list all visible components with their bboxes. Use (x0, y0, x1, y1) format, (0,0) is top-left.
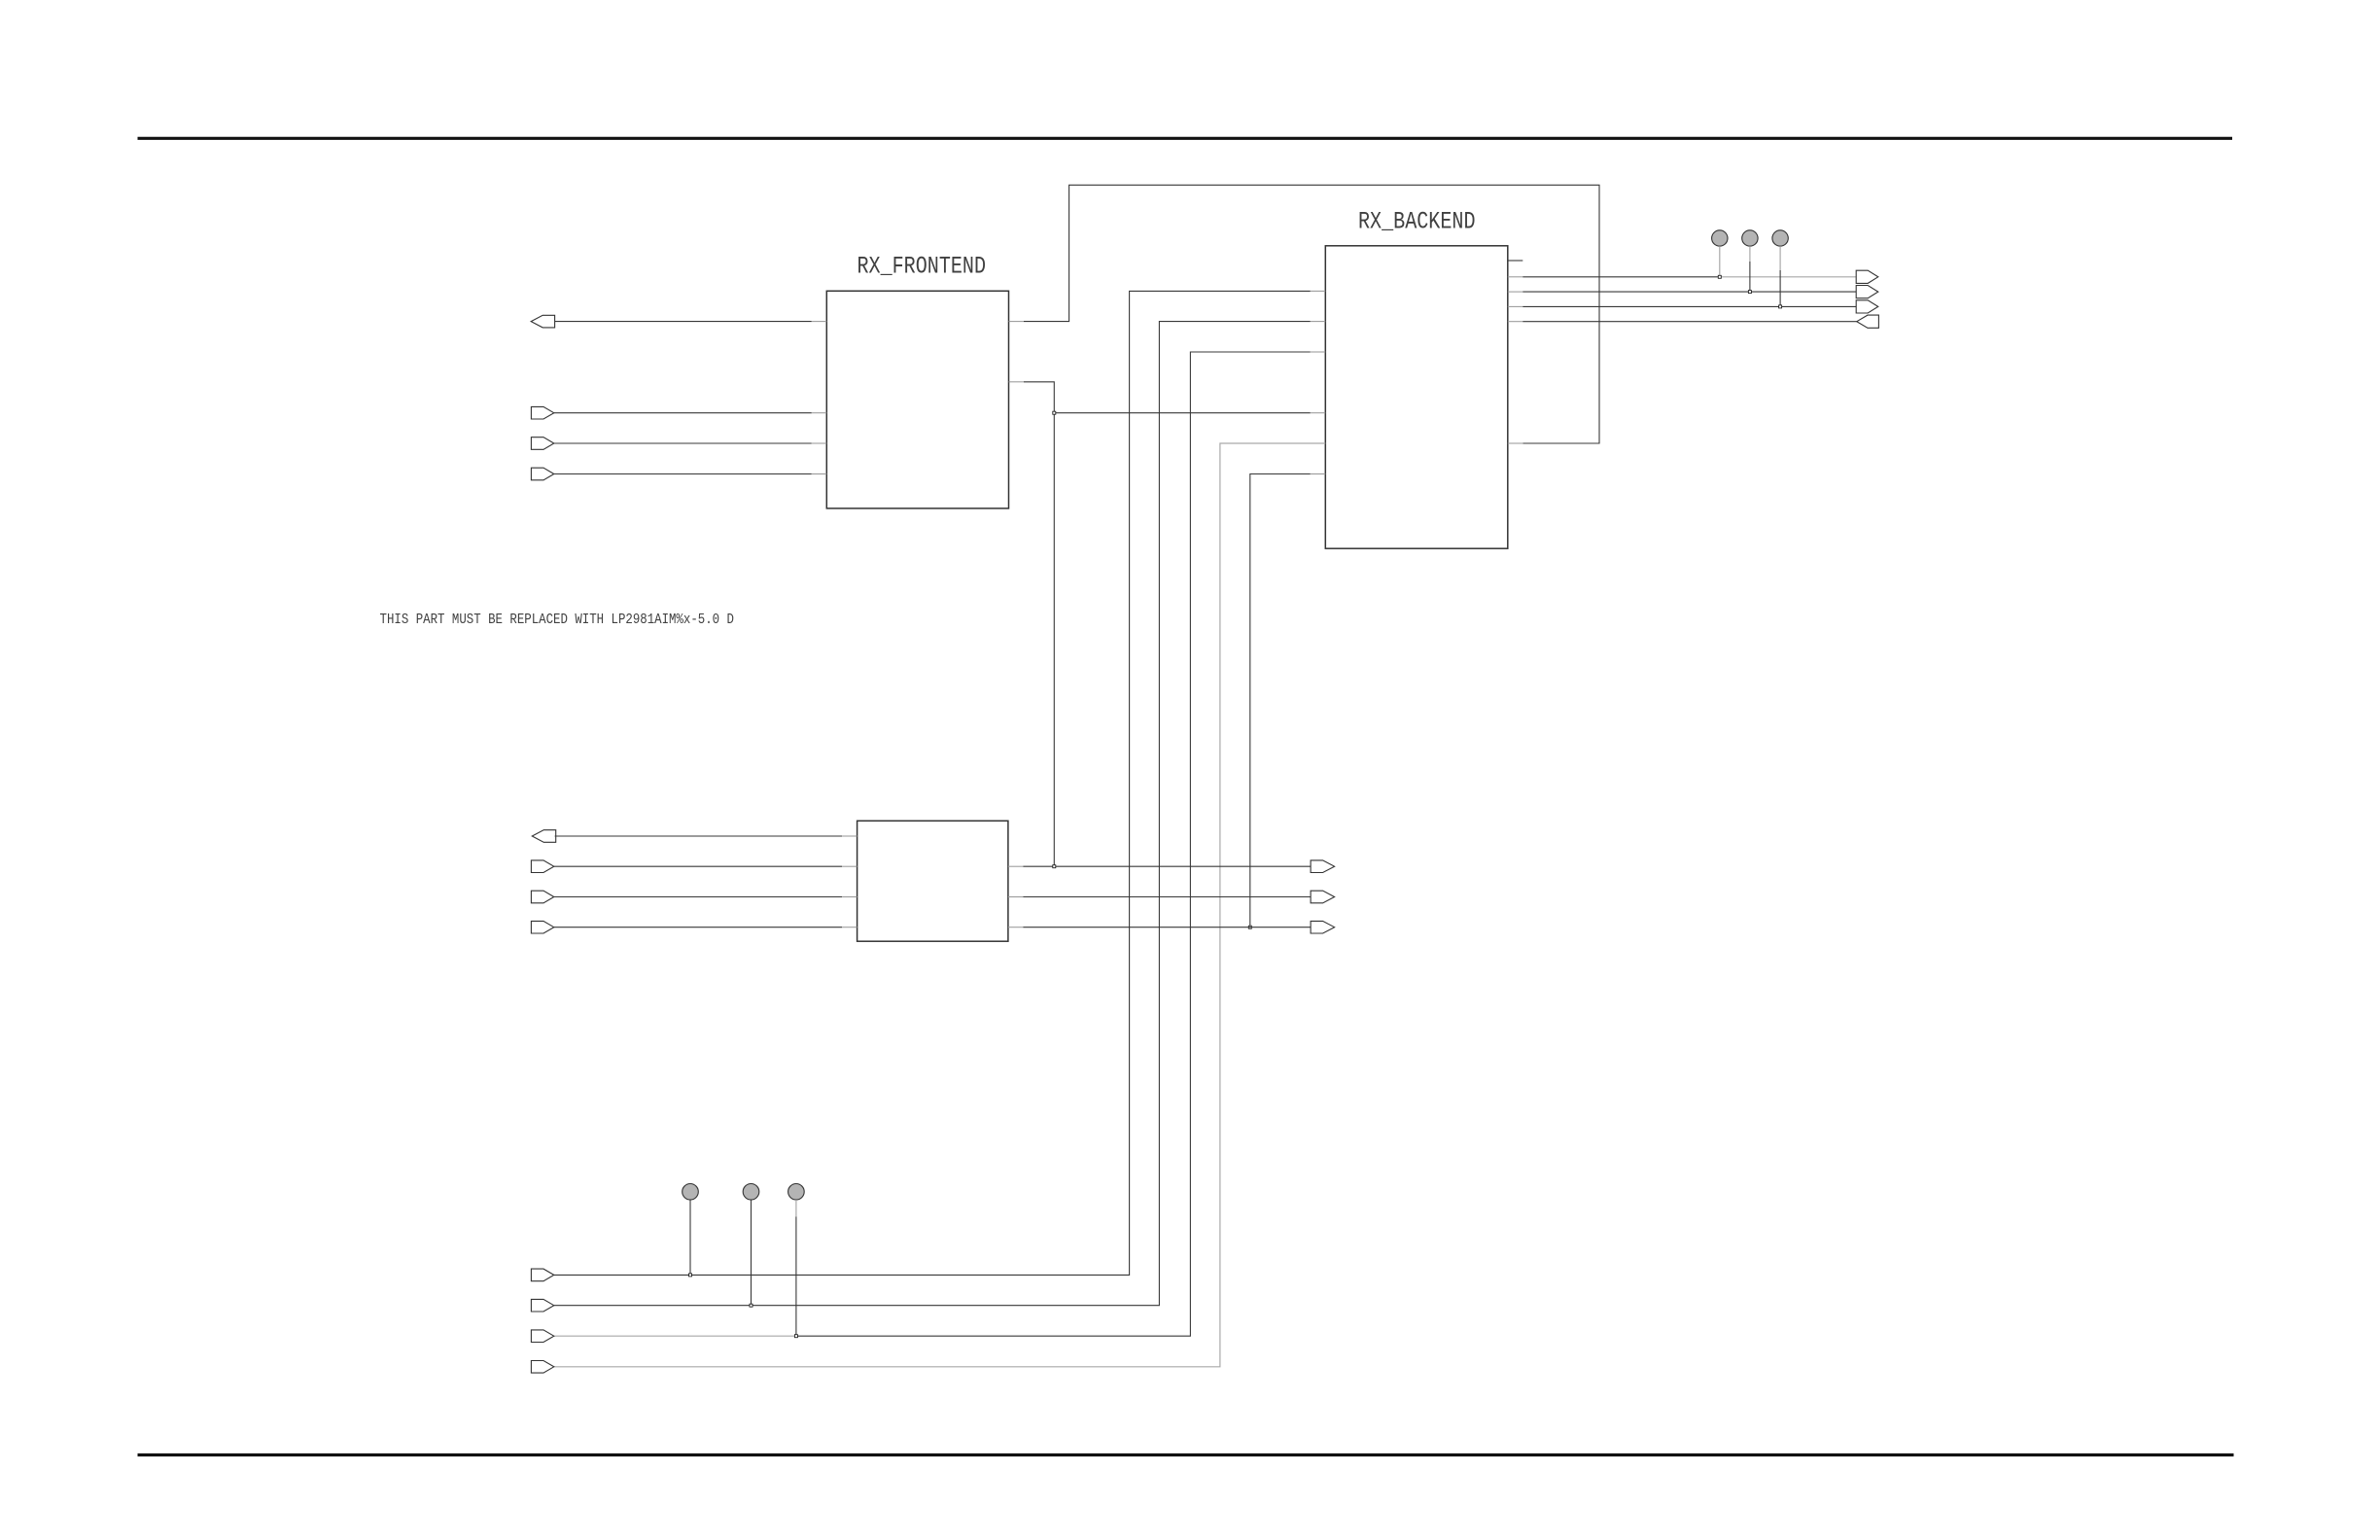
block RX_BACKEND U2 (1325, 246, 1508, 548)
port arrow bottom in 2 (531, 1299, 553, 1312)
wire backend right t1 gray part (1720, 276, 1856, 278)
wire frontend in 2 (554, 442, 812, 444)
pin stub middle out (842, 835, 857, 837)
pin stub backend pin BL4 (1311, 412, 1326, 414)
svg-text:RX_BACKEND: RX_BACKEND (1358, 208, 1476, 236)
wire net B vertical (1024, 382, 1054, 866)
pin stub middle right 3 (1008, 927, 1024, 928)
port arrow frontend in 2 (531, 437, 553, 450)
testpoint circle top 2 (1742, 230, 1758, 246)
pin stub middle in 2 (842, 896, 857, 898)
pin stub frontend in 2 (812, 442, 827, 444)
wire middle out (555, 835, 843, 837)
stem bottom 1 (689, 1200, 691, 1275)
pin stub backend pin BL1 (1311, 290, 1326, 292)
port arrow mid-right 3 (1311, 921, 1335, 933)
testpoint circle bottom 1 (682, 1184, 699, 1201)
wire middle right 1 (1023, 865, 1311, 867)
pin stub frontend pin FO2 (1009, 381, 1025, 383)
stem top 2 gray part (1749, 246, 1751, 262)
block RX_FRONTEND U1 (826, 291, 1008, 508)
port arrow out top-right 3 (1856, 300, 1878, 313)
stem top 1 (gray) (1719, 246, 1721, 277)
bottom border line (138, 1453, 2234, 1456)
junction top 3 (1779, 305, 1782, 308)
wire net RX1 backend BL2 to bottom port 2 (554, 322, 1311, 1306)
junction top 1 (1718, 275, 1721, 278)
junction bottom 1 (689, 1274, 692, 1277)
port arrow bottom in 1 (531, 1269, 553, 1281)
wire backend right t2 (1522, 291, 1856, 293)
testpoint circle top 3 (1772, 230, 1788, 246)
pin stub backend right t2 (1508, 291, 1523, 293)
wire net LOOP frontend to backend right pin (1024, 185, 1599, 443)
junction net RX4 at row m4 (1248, 926, 1251, 928)
pin stub middle in 3 (842, 927, 857, 928)
port arrow out top-right 2 (1856, 286, 1878, 298)
wire frontend in 3 (554, 473, 812, 475)
testpoint circle top 1 (1712, 230, 1728, 246)
testpoint circle bottom 3 (788, 1184, 805, 1201)
port arrow middle in 1 (531, 860, 553, 873)
wire net RX2 backend BL3 to bottom port 3 (black part) (796, 352, 1311, 1336)
wire frontend in 1 (554, 412, 812, 414)
block U3 regulator (unlabeled) (857, 821, 1008, 941)
wire middle right 2 (1023, 896, 1311, 898)
pin stub frontend in 1 (812, 412, 827, 414)
pin stub frontend out (812, 321, 827, 323)
wire frontend out (555, 321, 812, 323)
port arrow middle in 2 (531, 891, 553, 903)
port arrow middle in 3 (531, 921, 553, 933)
pin stub middle right 1 (1008, 865, 1024, 867)
wire net RX3 backend BL5 to bottom port 4 (gray net) (554, 443, 1326, 1367)
stem top 2 black part (1749, 262, 1751, 292)
port arrow frontend in 3 (531, 468, 553, 480)
pin stub backend right t4 (1508, 321, 1523, 323)
port arrow out top-right 1 (1856, 270, 1878, 283)
wire backend right t1 black part (1522, 276, 1720, 278)
junction net B at row m2 (1053, 865, 1056, 868)
wire net RX2 gray part (554, 1335, 796, 1337)
pin stub backend pin BL6 (1311, 473, 1326, 475)
wire net RX0 backend BL1 to bottom port 1 (554, 291, 1311, 1275)
port arrow mid-right 1 (1311, 860, 1335, 873)
stem bottom 3 black part (795, 1217, 797, 1337)
port arrow middle out (left-pointing) (532, 830, 555, 843)
wire middle right 3 (1023, 927, 1311, 928)
pin stub frontend in 3 (812, 473, 827, 475)
stem bottom 3 gray part (795, 1200, 797, 1216)
top border line (138, 137, 2233, 140)
port arrow frontend out (left-pointing) (531, 315, 554, 328)
pin stub backend right t1 (1508, 276, 1523, 278)
port arrow bottom in 3 (531, 1330, 553, 1343)
wire net RX4 backend BL6 to middle block out 3 (1250, 474, 1311, 927)
stem top 3 black part (1779, 270, 1781, 306)
port arrow mid-right 2 (1311, 891, 1335, 903)
wire middle in 3 (554, 927, 842, 928)
testpoint circle bottom 2 (743, 1184, 759, 1201)
junction top 2 (1748, 291, 1751, 294)
svg-text:THIS PART MUST BE REPLACED WIT: THIS PART MUST BE REPLACED WITH LP2981AI… (380, 612, 735, 628)
junction bottom 2 (750, 1304, 752, 1307)
stem top 3 gray part (1779, 246, 1781, 270)
port arrow in top-right 4 (left-pointing) (1857, 315, 1879, 328)
port arrow frontend in 1 (531, 406, 553, 419)
wire net B branch to backend pin BL4 (1054, 412, 1311, 414)
wire backend right t4 (1522, 321, 1857, 323)
wire backend right t3 (1522, 305, 1856, 307)
svg-text:RX_FRONTEND: RX_FRONTEND (857, 253, 987, 281)
junction bottom 3 (794, 1335, 797, 1338)
port arrow bottom in 4 (531, 1361, 553, 1374)
pin stub backend pin BL3 (1311, 351, 1326, 353)
pin stub middle in 1 (842, 865, 857, 867)
pin stub middle right 2 (1008, 896, 1024, 898)
wire middle in 2 (554, 896, 842, 898)
pin stub backend right pin BR5 (1508, 442, 1523, 444)
stem bottom 2 (751, 1200, 752, 1306)
pin stub backend pin BL2 (1311, 321, 1326, 323)
pin stub backend right t3 (1508, 305, 1523, 307)
pin stub backend NC (1508, 260, 1523, 262)
junction net B at row r4 (1053, 411, 1056, 414)
pin stub frontend pin FO1 (1009, 321, 1025, 323)
wire middle in 1 (554, 865, 842, 867)
